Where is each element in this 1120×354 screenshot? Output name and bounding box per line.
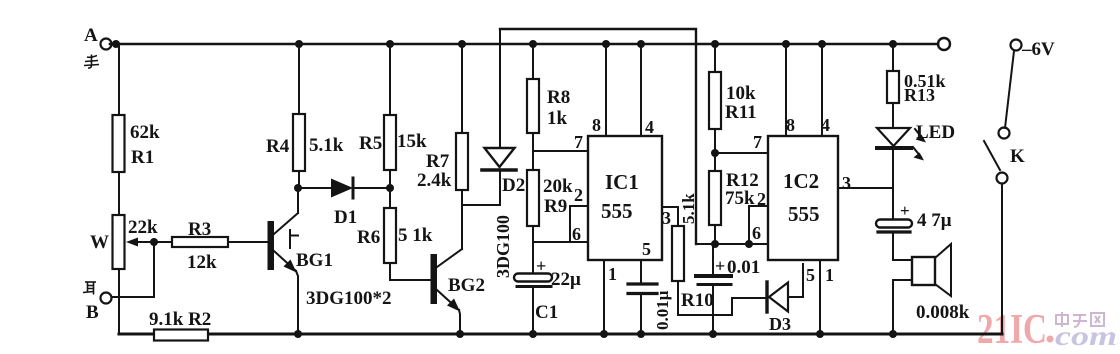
wire pin7 IC1 — [533, 150, 588, 152]
diode D3 — [765, 282, 768, 312]
svg-text:3DG100: 3DG100 — [493, 215, 513, 278]
wire pin7 IC2 — [715, 152, 768, 154]
wire W bottom — [118, 269, 120, 334]
svg-text:8: 8 — [592, 115, 601, 135]
svg-text:0.01: 0.01 — [727, 257, 760, 278]
diode D2 — [499, 29, 501, 148]
wire R3 to BG1 base — [228, 241, 268, 243]
svg-text:R4: R4 — [266, 136, 290, 157]
svg-text:6: 6 — [572, 224, 581, 244]
svg-text:BG1: BG1 — [296, 250, 333, 271]
watermark dianziwang — [1056, 312, 1104, 327]
capacitor 0.01 at pins 2,6 — [712, 244, 714, 274]
diode D1 — [298, 187, 331, 189]
svg-text:0.008k: 0.008k — [916, 302, 970, 323]
svg-text:R1: R1 — [131, 147, 154, 168]
svg-text:R9: R9 — [544, 196, 567, 217]
svg-text:7: 7 — [753, 132, 762, 152]
resistor R1 — [113, 115, 125, 172]
svg-text:1C2: 1C2 — [783, 169, 819, 193]
svg-text:K: K — [1010, 146, 1025, 167]
svg-text:15k: 15k — [397, 131, 427, 152]
svg-text:1k: 1k — [547, 108, 568, 129]
svg-text:R11: R11 — [725, 102, 757, 123]
resistor R8 — [529, 40, 537, 48]
wire bottom bus — [119, 332, 1002, 335]
svg-text:5.1k: 5.1k — [309, 135, 344, 156]
svg-text:+: + — [536, 256, 546, 276]
wire D3 to pin5 IC2 — [788, 264, 803, 297]
svg-text:W: W — [90, 232, 109, 253]
svg-text:3: 3 — [842, 173, 851, 193]
svg-text:555: 555 — [788, 202, 820, 226]
terminal top right — [938, 38, 950, 50]
svg-text:4: 4 — [821, 115, 830, 135]
svg-text:8: 8 — [786, 115, 795, 135]
terminal B — [101, 293, 112, 304]
svg-text:4: 4 — [645, 117, 654, 137]
svg-text:1: 1 — [608, 264, 617, 284]
wire pin3 IC1 to R10 — [662, 207, 678, 226]
svg-text:R7: R7 — [426, 151, 450, 172]
svg-text:B: B — [86, 302, 99, 323]
label hand — [84, 55, 99, 69]
wire wiper to B terminal — [112, 242, 154, 297]
transistor BG2 — [431, 254, 438, 304]
wire LED to pin3 node — [892, 150, 894, 219]
node R12 bottom — [711, 240, 719, 248]
wire -6V to switch — [1005, 51, 1014, 128]
resistor R3 — [172, 237, 228, 247]
svg-text:2: 2 — [574, 185, 583, 205]
watermark dot — [1047, 336, 1054, 343]
wire R7/D2 to BG2 collector — [462, 204, 500, 206]
wire R10 to D3 — [678, 281, 766, 315]
node D1/R5/R6 — [386, 184, 394, 192]
svg-text:3DG100*2: 3DG100*2 — [306, 288, 392, 309]
svg-text:D3: D3 — [769, 314, 791, 334]
resistor R7 — [458, 40, 466, 48]
svg-text:5: 5 — [806, 265, 815, 285]
svg-text:75k: 75k — [725, 188, 755, 209]
svg-text:20k: 20k — [543, 176, 573, 197]
svg-text:D2: D2 — [502, 175, 525, 196]
wire pins 2,6 IC2 — [696, 243, 749, 245]
svg-text:R13: R13 — [904, 85, 935, 105]
svg-text:LED: LED — [916, 122, 955, 143]
svg-text:10k: 10k — [726, 83, 756, 104]
potentiometer W body — [113, 215, 125, 269]
svg-text:21IC: 21IC — [977, 307, 1047, 353]
op-amp IC1 555 box — [588, 136, 662, 260]
svg-text:62k: 62k — [130, 122, 160, 143]
resistor R9 — [527, 170, 539, 226]
speaker — [893, 259, 912, 261]
capacitor 4.7u — [876, 220, 912, 228]
svg-text:A: A — [84, 25, 98, 46]
svg-text:BG2: BG2 — [448, 275, 485, 296]
svg-text:–6V: –6V — [1021, 39, 1055, 60]
wire R11 to R12 — [714, 129, 716, 171]
svg-text:5: 5 — [642, 239, 651, 259]
svg-text:6: 6 — [752, 223, 761, 243]
resistor R2 — [154, 330, 208, 341]
svg-text:555: 555 — [601, 199, 633, 223]
svg-text:4 7μ: 4 7μ — [917, 210, 952, 231]
svg-text:12k: 12k — [187, 252, 217, 273]
svg-text:R6: R6 — [357, 227, 380, 248]
wire R8 to R9 — [532, 133, 534, 170]
switch K — [999, 128, 1010, 139]
wire R9 to C1 — [532, 226, 534, 274]
wire pin1 IC2 — [819, 260, 821, 334]
wire pins 2,6 IC1 — [533, 206, 588, 242]
svg-text:2.4k: 2.4k — [417, 170, 452, 191]
svg-text:22μ: 22μ — [551, 269, 581, 290]
op-amp IC2 555 box — [768, 136, 838, 260]
svg-text:0.01μ: 0.01μ — [653, 290, 672, 330]
resistor R4 — [295, 40, 303, 48]
svg-text:R5: R5 — [359, 133, 382, 154]
node pin7 IC2 — [711, 149, 719, 157]
terminal -6V — [1011, 40, 1022, 51]
capacitor C1 — [514, 274, 552, 282]
wire wiper to R3 — [154, 241, 172, 243]
resistor R13 — [889, 40, 897, 48]
node BG2 emitter at bus — [456, 330, 464, 338]
svg-text:5 1k: 5 1k — [398, 225, 433, 246]
svg-text:7: 7 — [574, 132, 583, 152]
resistor R10 — [672, 226, 684, 281]
potentiometer W wiper arrow — [133, 241, 154, 243]
svg-text:1: 1 — [825, 265, 834, 285]
wire pin3 IC2 — [838, 187, 893, 189]
transistor BG1 — [268, 221, 275, 270]
wire pin4 IC2 — [821, 44, 823, 136]
terminal A — [101, 39, 112, 50]
svg-text:+: + — [715, 256, 725, 276]
label ear — [83, 282, 96, 295]
node BG1 emitter at bus — [294, 330, 302, 338]
resistor R12 — [709, 171, 721, 225]
resistor R6 — [389, 188, 391, 208]
svg-text:IC1: IC1 — [605, 170, 639, 194]
resistor R5 — [386, 40, 394, 48]
node A junction — [112, 40, 120, 48]
capacitor pin5 0.01u — [640, 260, 642, 283]
svg-text:5.1k: 5.1k — [679, 193, 698, 224]
svg-text:R8: R8 — [547, 87, 570, 108]
svg-text:9.1k R2: 9.1k R2 — [149, 309, 211, 330]
wire R1 to W — [118, 172, 120, 215]
svg-text:R3: R3 — [188, 219, 211, 240]
svg-text:D1: D1 — [334, 207, 357, 228]
wire feedback upper — [500, 29, 696, 244]
svg-text:3: 3 — [662, 208, 671, 228]
wire pin8 IC1 — [605, 44, 607, 136]
svg-text:com: com — [1055, 321, 1117, 351]
svg-text:R10: R10 — [681, 290, 714, 311]
LED — [877, 128, 910, 146]
svg-text:+: + — [900, 201, 910, 220]
wire pin4 IC1 — [640, 44, 642, 136]
svg-text:2: 2 — [757, 189, 766, 209]
wire pin8 IC2 — [785, 44, 787, 136]
node R4/D1/BG1 collector — [294, 184, 302, 192]
node wiper junction — [150, 238, 158, 246]
wire R1 top — [118, 44, 120, 115]
svg-text:C1: C1 — [535, 302, 558, 323]
wire pin1 IC1 — [603, 260, 605, 334]
wire R6 to BG2 base — [390, 263, 431, 280]
svg-text:22k: 22k — [128, 217, 158, 238]
wire top bus — [110, 43, 938, 46]
resistor R11 — [711, 40, 719, 48]
